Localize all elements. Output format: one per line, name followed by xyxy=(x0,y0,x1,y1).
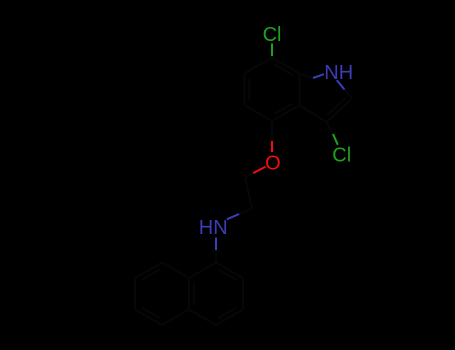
bond C7-C6 xyxy=(245,58,273,74)
bond N1-C2 blue half xyxy=(337,80,345,89)
naphthalene double bond inner line C3=C4 xyxy=(218,308,236,319)
naphthalene bond C8-C7 xyxy=(135,263,162,279)
bond C5-C4 xyxy=(245,105,273,121)
bond C3a-C7a (fusion) xyxy=(299,73,301,105)
bond CH2-CH2 xyxy=(245,177,252,209)
naphthalene double bond inner line C7=C8 xyxy=(142,269,160,280)
naphthalene bond C1-C2 xyxy=(216,263,243,279)
bond C4-O red half xyxy=(271,141,273,152)
naphthalene bond C7-C6 xyxy=(134,278,136,310)
svg-text:NH: NH xyxy=(324,62,353,84)
double bond inner line C2=C3 xyxy=(327,98,345,115)
svg-text:Cl: Cl xyxy=(263,24,282,46)
bond NH-C1naph blue half xyxy=(215,238,217,251)
svg-text:HN: HN xyxy=(199,217,228,239)
double bond inner line C4=C3a xyxy=(274,103,293,114)
naphthalene bond C5-C4a xyxy=(162,310,189,326)
bond O-CH2 red half xyxy=(253,167,265,173)
bond C7a-N1 blue half xyxy=(313,74,324,78)
naphthalene double bond inner line C1=C2 xyxy=(218,269,236,280)
bond C6-C5 xyxy=(244,73,246,105)
bond C3-Cl3 green half xyxy=(333,134,338,145)
bond C7-Cl7 (green) xyxy=(271,44,273,57)
bond C7a-C7 xyxy=(272,58,300,74)
bond C4-C3a xyxy=(272,105,300,121)
naphthalene double bond inner line C4a=C8a xyxy=(193,283,195,305)
bond C3-Cl3 dark half xyxy=(327,122,334,134)
bond O-CH2 dark half xyxy=(245,173,253,177)
naphthalene bond C2-C3 xyxy=(242,278,244,310)
svg-text:Cl: Cl xyxy=(332,144,351,166)
bond C7a-N1 dark half xyxy=(300,73,314,78)
naphthalene bond C8a-C8 xyxy=(162,263,189,279)
svg-text:O: O xyxy=(265,153,281,175)
bond C3a-C3 xyxy=(300,105,327,122)
naphthalene double bond inner line C5=C6 xyxy=(142,308,160,319)
naphthalene bond C4a-C8a (central) xyxy=(188,278,190,310)
naphthalene bond C3-C4 xyxy=(216,310,243,326)
naphthalene bond C4-C4a xyxy=(189,310,216,326)
bond C4-O dark half xyxy=(271,121,273,141)
bond CH2-NH dark half xyxy=(239,209,252,215)
naphthalene bond C8a-C1 xyxy=(189,263,216,279)
double bond inner line C5=C6 xyxy=(248,78,250,100)
bond C2-C3 xyxy=(327,99,353,123)
bond N1-C2 dark half xyxy=(345,90,353,99)
naphthalene bond C6-C5 xyxy=(135,310,162,326)
bond NH-C1naph dark half xyxy=(215,250,217,263)
double bond inner line C7=C7a xyxy=(274,64,293,75)
bond CH2-NH blue half xyxy=(227,214,239,219)
